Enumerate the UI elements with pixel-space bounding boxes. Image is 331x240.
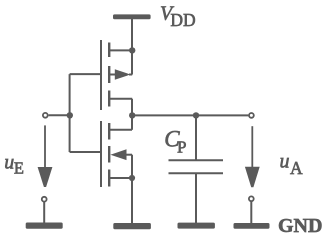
junction capacitor node [193, 112, 199, 118]
wire input terminal to junction [49, 114, 70, 116]
wire output [132, 114, 248, 116]
junction NMOS source node [129, 175, 135, 181]
wire output lower terminal to ground [250, 202, 252, 223]
svg-text:u: u [280, 151, 290, 173]
voltage arrow u_E [38, 125, 53, 187]
svg-text:DD: DD [170, 10, 195, 30]
capacitor CP bottom lead [195, 173, 197, 223]
svg-text:E: E [14, 159, 24, 178]
ground bar transistor [113, 223, 151, 229]
output lower terminal (open circle) [249, 196, 254, 201]
wire VDD stem [131, 19, 133, 50]
channel segment middle (bulk) [108, 146, 110, 163]
channel segment middle (bulk) [108, 66, 110, 83]
transistor PMOS (top) [101, 40, 132, 110]
power bar VDD [113, 14, 151, 19]
source stub [110, 177, 132, 179]
junction PMOS source node [129, 47, 135, 53]
bulk arrow (points right, PMOS) [115, 69, 131, 80]
capacitor CP top lead [195, 115, 197, 160]
svg-text:GND: GND [278, 215, 322, 237]
junction input node [67, 112, 73, 118]
bulk arrow (points left, NMOS) [110, 149, 126, 160]
wire input lower terminal to ground [43, 202, 45, 223]
label u_E [4, 151, 24, 177]
channel segment bottom (source) [108, 170, 110, 187]
input lower terminal (open circle) [42, 197, 47, 202]
drain stub [110, 129, 132, 131]
source stub [110, 49, 132, 51]
ground bar input [26, 223, 63, 229]
wire NMOS source to ground [131, 178, 133, 223]
junction output node [129, 112, 135, 118]
label u_A [280, 151, 304, 179]
gate line [100, 40, 102, 110]
svg-text:P: P [177, 138, 186, 157]
wire NMOS bulk down to source node [131, 155, 133, 178]
bulk wire to node [126, 154, 133, 156]
channel segment bottom (drain) [108, 91, 110, 107]
transistor NMOS (bottom) [101, 121, 132, 187]
wire to PMOS gate [70, 73, 100, 75]
channel segment top (source) [108, 43, 110, 58]
label V_DD [160, 2, 196, 30]
wire input bus vertical [69, 74, 71, 152]
ground bar output [234, 223, 270, 229]
svg-text:u: u [4, 151, 14, 173]
capacitor CP top plate [169, 159, 224, 161]
channel segment top (drain) [108, 123, 110, 140]
input terminal (open circle) [43, 113, 48, 118]
voltage arrow u_A [245, 126, 260, 187]
wire PMOS drain down to output node [131, 99, 133, 116]
wire output node to NMOS drain [131, 115, 133, 129]
output terminal (open circle) [249, 113, 254, 118]
wire PMOS bulk to VDD node [131, 50, 133, 74]
bulk wire to node [129, 74, 132, 76]
bulk stub [110, 74, 116, 76]
ground bar capacitor [178, 223, 215, 229]
wire to NMOS gate [70, 151, 100, 153]
drain stub [110, 98, 132, 100]
gate line [100, 121, 102, 187]
capacitor CP bottom plate [169, 172, 224, 174]
svg-text:A: A [290, 158, 303, 178]
label C_P [164, 126, 186, 156]
